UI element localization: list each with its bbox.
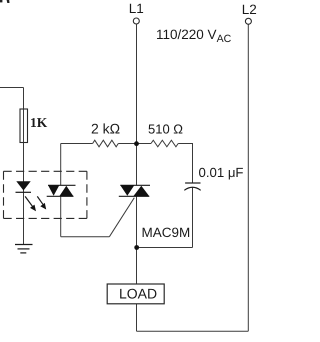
wire left vertical input to ground — [23, 88, 25, 245]
wire L1 terminal down to triac — [136, 24, 138, 185]
svg-text:L1: L1 — [129, 1, 144, 16]
resistor R 510 ohm zigzag — [151, 140, 178, 147]
photo-triac top bar — [48, 184, 76, 186]
triac Q1 right triangle — [133, 186, 149, 197]
photo-triac bottom bar — [47, 195, 74, 197]
wire triac down to LOAD — [136, 196, 138, 284]
svg-text:510 Ω: 510 Ω — [148, 121, 183, 136]
photo-triac right triangle — [59, 186, 73, 197]
node junction dot at capacitor return — [134, 245, 139, 250]
terminal L2 circle — [245, 18, 251, 24]
wire gate horizontal — [61, 236, 110, 238]
svg-text:1K: 1K — [30, 115, 48, 130]
svg-text:L2: L2 — [242, 2, 257, 17]
resistor R1 1K box — [20, 109, 28, 143]
wire 510 ohm to capacitor corner — [178, 144, 192, 184]
light arrow 1 — [25, 196, 36, 211]
wire 2k ohm to node — [118, 143, 136, 145]
node junction dot at resistors — [134, 141, 139, 146]
wire top-left horizontal — [0, 87, 24, 89]
cropped text remnant top-left — [0, 0, 2, 2]
svg-text:0.01 μF: 0.01 μF — [199, 165, 244, 180]
LED D1 triangle — [16, 181, 30, 190]
triac Q1 left triangle — [120, 185, 134, 196]
wire bottom horizontal — [137, 330, 249, 332]
ground symbol — [15, 245, 33, 253]
wire LOAD bottom — [136, 304, 138, 332]
capacitor C1 curved plate — [184, 187, 200, 190]
triac Q1 top bar — [120, 184, 150, 186]
svg-text:LOAD: LOAD — [119, 286, 157, 302]
wire photo-triac drive vertical — [60, 144, 62, 186]
photo-triac left triangle — [48, 185, 59, 196]
wire gate diagonal to triac — [109, 198, 134, 237]
svg-text:MAC9M: MAC9M — [142, 225, 191, 240]
cropped text remnant top-left 2 — [7, 0, 10, 3]
terminal L1 circle — [133, 18, 139, 24]
LOAD box — [107, 284, 164, 304]
wire capacitor bottom lead — [192, 188, 194, 248]
wire 2k ohm row left segment — [61, 143, 93, 145]
wire capacitor return to node — [137, 247, 193, 249]
svg-text:2 kΩ: 2 kΩ — [91, 121, 120, 137]
LED D1 cathode bar — [16, 191, 32, 193]
triac Q1 bottom bar — [119, 195, 150, 197]
wire L2 vertical — [247, 24, 249, 331]
light arrow 2 — [37, 196, 46, 209]
wire photo-triac bottom lead — [60, 196, 62, 236]
optocoupler dashed box — [4, 171, 87, 218]
wire node to 510 ohm — [137, 143, 152, 145]
resistor R 2 kohm zigzag — [93, 140, 119, 147]
capacitor C1 flat plate — [185, 182, 200, 184]
